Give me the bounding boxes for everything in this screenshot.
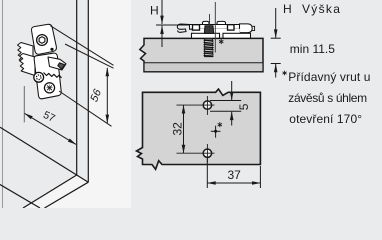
svg-text:závěsů s úhlem: závěsů s úhlem bbox=[288, 91, 367, 105]
svg-text:H: H bbox=[283, 2, 292, 16]
svg-text:5: 5 bbox=[237, 103, 251, 110]
svg-text:37: 37 bbox=[228, 168, 242, 182]
svg-text:32: 32 bbox=[170, 122, 184, 136]
svg-text:otevření 170°: otevření 170° bbox=[289, 112, 362, 126]
svg-text:Výška: Výška bbox=[302, 2, 341, 16]
svg-text:min 11.5: min 11.5 bbox=[290, 42, 335, 56]
svg-text:H: H bbox=[150, 3, 159, 17]
svg-text:Přídavný vrut u: Přídavný vrut u bbox=[288, 70, 370, 84]
